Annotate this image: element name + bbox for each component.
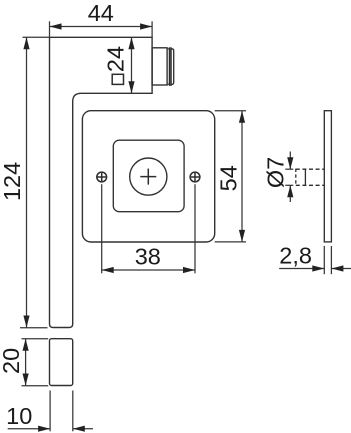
svg-text:124: 124 [0, 162, 25, 201]
svg-text:10: 10 [6, 403, 32, 429]
svg-text:Ø7: Ø7 [262, 157, 288, 188]
svg-text:24: 24 [103, 46, 129, 72]
svg-text:38: 38 [135, 243, 161, 269]
svg-text:2,8: 2,8 [279, 243, 312, 269]
svg-text:20: 20 [0, 348, 24, 374]
svg-text:54: 54 [216, 165, 242, 191]
svg-text:44: 44 [88, 0, 114, 26]
